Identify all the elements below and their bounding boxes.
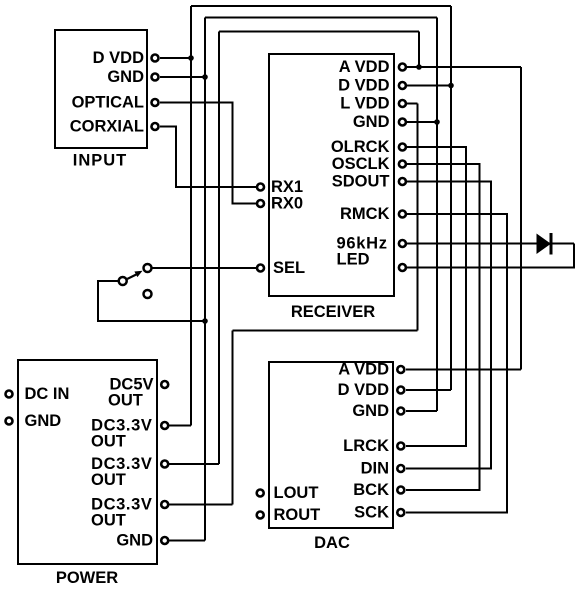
- block POWER: [18, 360, 157, 564]
- junction dot RECEIVER A VDD / rail: [416, 64, 422, 70]
- pin RECEIVER 96kHz: [399, 240, 406, 247]
- svg-text:SEL: SEL: [273, 259, 305, 277]
- svg-text:OUT: OUT: [108, 392, 143, 410]
- pin INPUT CORXIAL: [152, 123, 159, 130]
- pin DAC ROUT: [257, 512, 264, 519]
- svg-text:BCK: BCK: [353, 481, 389, 499]
- svg-text:GND: GND: [25, 412, 62, 430]
- svg-text:INPUT: INPUT: [73, 152, 128, 170]
- svg-text:DC IN: DC IN: [25, 385, 70, 403]
- pin RECEIVER D VDD: [399, 82, 406, 89]
- block DAC: [269, 362, 393, 528]
- wire net GND: right vertical rail x=437 down to DAC: [436, 18, 438, 412]
- pin DAC D VDD: [397, 387, 404, 394]
- diode D1: [537, 233, 553, 255]
- pin DAC LRCK: [397, 443, 404, 450]
- pin RECEIVER GND: [399, 119, 406, 126]
- pin RECEIVER OLRCK: [399, 144, 406, 151]
- svg-text:RX0: RX0: [271, 195, 303, 213]
- switch arrowhead: [134, 271, 142, 277]
- wire net AVDD: vertical x=419 down to RECEIVER A VDD: [418, 32, 420, 68]
- block RECEIVER: [269, 54, 394, 296]
- svg-text:GND: GND: [352, 402, 389, 420]
- pin POWER GND left: [6, 418, 13, 425]
- svg-text:RX1: RX1: [271, 178, 303, 196]
- svg-text:LOUT: LOUT: [274, 484, 319, 502]
- pin DAC LOUT: [257, 490, 264, 497]
- wire net DVDD: right vertical rail x=451 down to DAC: [450, 6, 452, 390]
- wire net AVDD: left vertical rail x=219: [218, 32, 220, 465]
- pin RECEIVER L VDD: [399, 100, 406, 107]
- svg-text:D VDD: D VDD: [338, 381, 389, 399]
- wire net AVDD: vertical x=521 down to DAC A VDD: [520, 67, 522, 370]
- svg-text:RMCK: RMCK: [340, 205, 390, 223]
- wire net DVDD: top horizontal run y=6: [191, 5, 451, 7]
- wire RECEIVER L VDD stub: [407, 103, 418, 105]
- junction dot INPUT D VDD / rail: [188, 55, 194, 61]
- pin RECEIVER OSCLK: [399, 161, 406, 168]
- wire INPUT D VDD stub: [160, 57, 191, 59]
- wire RMCK to SCK: [406, 214, 507, 513]
- svg-text:GND: GND: [107, 68, 144, 86]
- switch contact B: [119, 277, 127, 285]
- svg-text:LED: LED: [337, 251, 370, 269]
- wire switch pole to SEL: [152, 267, 256, 269]
- wire OLRCK to LRCK: [406, 147, 466, 446]
- pin POWER GND right: [161, 537, 168, 544]
- pin INPUT GND: [152, 74, 159, 81]
- wire net AVDD: top horizontal run y=31.5: [219, 31, 419, 33]
- switch contact A (pole to SEL): [144, 264, 152, 272]
- svg-text:OUT: OUT: [91, 433, 126, 451]
- wire DAC D VDD stub: [406, 389, 451, 391]
- svg-text:DIN: DIN: [361, 460, 389, 478]
- wire RECEIVER D VDD stub: [407, 85, 451, 87]
- pin RECEIVER SEL: [257, 265, 264, 272]
- junction dot INPUT GND / rail: [202, 74, 208, 80]
- svg-text:OSCLK: OSCLK: [332, 155, 390, 173]
- svg-text:SCK: SCK: [354, 504, 389, 522]
- pin RECEIVER LED: [399, 264, 406, 271]
- wire RECEIVER GND stub: [407, 121, 437, 123]
- svg-text:GND: GND: [353, 113, 390, 131]
- wire 96kHz to diode anode: [407, 243, 574, 245]
- wire INPUT GND stub: [160, 76, 205, 78]
- wire net GND: left vertical rail x=205: [204, 18, 206, 541]
- svg-text:POWER: POWER: [56, 569, 118, 587]
- switch wire from contact B: [127, 274, 137, 279]
- pin DAC DIN: [397, 465, 404, 472]
- wire CORXIAL to RX1: [160, 127, 256, 188]
- wire net DVDD: left vertical rail x=191: [190, 6, 192, 426]
- wire diode cathode loop back to LED pin: [407, 244, 574, 268]
- wire DAC GND stub: [406, 410, 437, 412]
- svg-text:OLRCK: OLRCK: [331, 138, 390, 156]
- wire net AVDD: POWER DC3.3V OUT2 stub: [169, 463, 219, 465]
- pin POWER DC5V OUT: [161, 381, 168, 388]
- wire DAC A VDD stub: [406, 369, 521, 371]
- pin RECEIVER RX0: [257, 200, 264, 207]
- switch SW1: [119, 264, 152, 298]
- svg-text:D VDD: D VDD: [93, 49, 144, 67]
- junction dot switch / GND rail: [202, 318, 208, 324]
- pin INPUT OPTICAL: [152, 99, 159, 106]
- pin POWER DC3.3V OUT1: [161, 422, 168, 429]
- wire RECEIVER A VDD horizontal to x=521: [407, 66, 521, 68]
- wire net DVDD: POWER DC3.3V OUT1 stub to rail: [169, 425, 191, 427]
- wire net LVDD: vertical x=232.5 up to y=330: [232, 331, 234, 505]
- block INPUT: [55, 30, 147, 148]
- wire switch to GND rail: [98, 281, 205, 321]
- pin DAC GND: [397, 408, 404, 415]
- pin POWER DC3.3V OUT2: [161, 461, 168, 468]
- svg-text:A VDD: A VDD: [339, 58, 390, 76]
- pin DAC SCK: [397, 509, 404, 516]
- pin RECEIVER RMCK: [399, 211, 406, 218]
- pin RECEIVER A VDD: [399, 64, 406, 71]
- switch contact C: [144, 290, 152, 298]
- wire OPTICAL to RX0: [160, 103, 256, 204]
- pin POWER DC3.3V OUT3: [161, 501, 168, 508]
- wire net GND: POWER GND stub to rail: [169, 540, 205, 542]
- pin RECEIVER RX1: [257, 184, 264, 191]
- wire net LVDD: vertical x=417.5 up to RECEIVER L VDD: [417, 104, 419, 331]
- svg-text:ROUT: ROUT: [274, 506, 321, 524]
- svg-text:LRCK: LRCK: [343, 437, 389, 455]
- pin POWER DC IN: [6, 391, 13, 398]
- junction dot RECEIVER GND / rail: [434, 119, 440, 125]
- svg-text:D VDD: D VDD: [338, 77, 389, 95]
- svg-text:DAC: DAC: [314, 534, 350, 552]
- svg-text:CORXIAL: CORXIAL: [70, 118, 144, 136]
- svg-text:OUT: OUT: [91, 471, 126, 489]
- svg-text:OUT: OUT: [91, 512, 126, 530]
- wire net GND: top horizontal run y=17.5: [205, 17, 437, 19]
- wire net LVDD: horizontal y=330: [233, 330, 418, 332]
- svg-text:L VDD: L VDD: [340, 95, 389, 113]
- wire net LVDD: POWER DC3.3V OUT3 stub: [169, 504, 233, 506]
- pin DAC BCK: [397, 487, 404, 494]
- svg-text:RECEIVER: RECEIVER: [291, 303, 375, 321]
- junction dot RECEIVER D VDD / rail: [448, 83, 454, 89]
- wire SDOUT to DIN: [406, 182, 491, 469]
- wire OSCLK to BCK: [406, 164, 480, 490]
- pin RECEIVER SDOUT: [399, 178, 406, 185]
- svg-text:OPTICAL: OPTICAL: [72, 94, 144, 112]
- svg-text:GND: GND: [116, 532, 153, 550]
- svg-text:A VDD: A VDD: [338, 361, 389, 379]
- pin INPUT D VDD: [152, 55, 159, 62]
- pin DAC A VDD: [397, 366, 404, 373]
- svg-text:SDOUT: SDOUT: [332, 173, 390, 191]
